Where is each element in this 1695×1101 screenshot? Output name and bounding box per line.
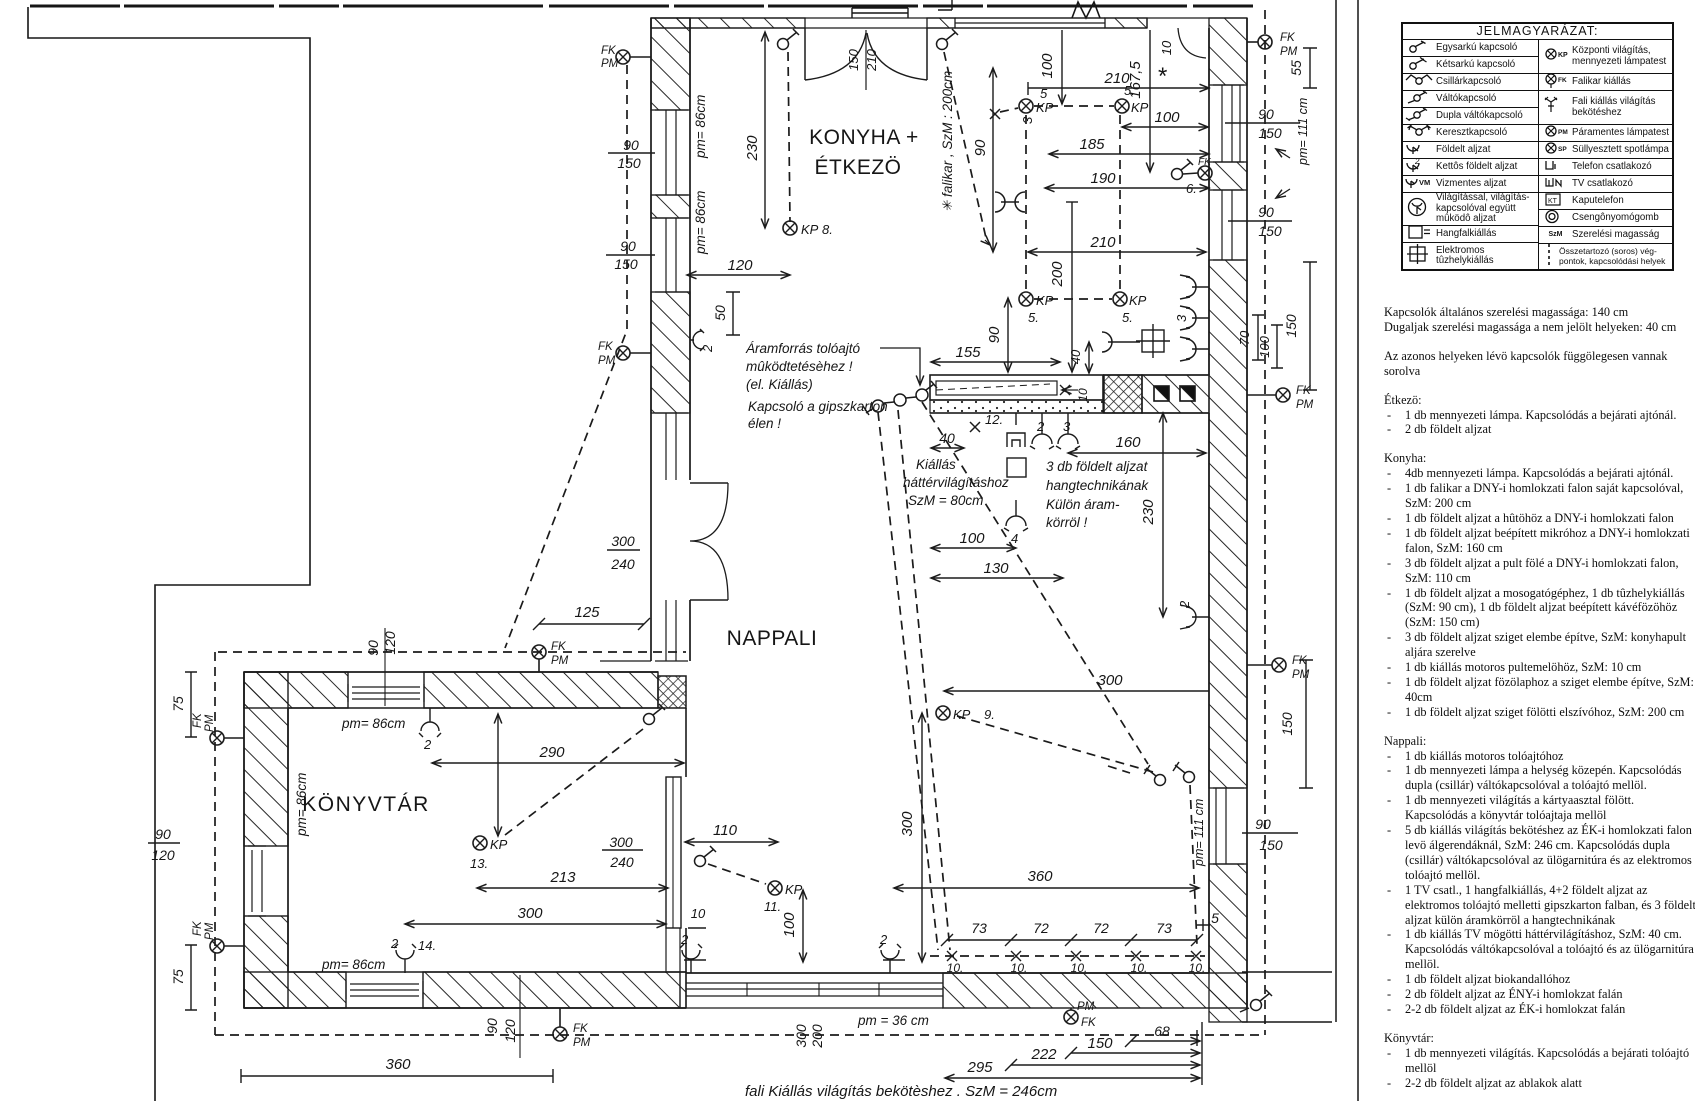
- svg-text:10: 10: [1159, 40, 1174, 55]
- svg-text:PM: PM: [598, 355, 616, 367]
- svg-text:90: 90: [1255, 816, 1271, 832]
- svg-text:10.: 10.: [1189, 961, 1206, 975]
- svg-text:2: 2: [700, 344, 715, 353]
- svg-text:pm= 86cm: pm= 86cm: [693, 191, 708, 255]
- svg-text:FK: FK: [601, 45, 617, 57]
- svg-text:2: 2: [680, 932, 689, 947]
- svg-text:150: 150: [617, 155, 641, 171]
- svg-text:120: 120: [151, 847, 175, 863]
- svg-text:90: 90: [484, 1018, 500, 1034]
- svg-text:90: 90: [986, 326, 1003, 343]
- svg-text:230: 230: [744, 135, 761, 162]
- svg-text:FK: FK: [1198, 157, 1212, 168]
- svg-text:150: 150: [1258, 223, 1282, 239]
- svg-text:360: 360: [1027, 868, 1053, 885]
- svg-text:FK: FK: [551, 641, 567, 653]
- svg-text:150: 150: [1259, 837, 1283, 853]
- svg-text:90: 90: [623, 137, 639, 153]
- svg-text:(el. Kiállás): (el. Kiállás): [746, 377, 813, 392]
- svg-text:háttérvilágításhoz: háttérvilágításhoz: [903, 475, 1009, 490]
- svg-text:100: 100: [1039, 53, 1056, 79]
- svg-text:KP: KP: [801, 222, 819, 237]
- svg-text:300: 300: [609, 834, 633, 850]
- svg-text:150: 150: [846, 48, 861, 70]
- svg-text:PM: PM: [1077, 1001, 1095, 1013]
- svg-text:körröl !: körröl !: [1046, 515, 1088, 530]
- svg-text:200: 200: [809, 1024, 825, 1049]
- svg-text:KONYHA +: KONYHA +: [809, 126, 919, 149]
- svg-text:ÉTKEZÖ: ÉTKEZÖ: [814, 156, 901, 179]
- svg-text:FK: FK: [573, 1023, 589, 1035]
- svg-text:40: 40: [939, 430, 955, 446]
- svg-text:150: 150: [1283, 314, 1299, 338]
- svg-text:11.: 11.: [764, 899, 781, 914]
- svg-text:90: 90: [620, 238, 636, 254]
- svg-text:pm= 86cm: pm= 86cm: [693, 95, 708, 159]
- svg-text:9.: 9.: [984, 707, 995, 722]
- svg-text:300: 300: [899, 811, 916, 837]
- svg-text:230: 230: [1140, 499, 1157, 526]
- svg-text:✳ falikar , SzM : 200cm: ✳ falikar , SzM : 200cm: [940, 71, 955, 212]
- svg-text:10.: 10.: [1011, 961, 1028, 975]
- svg-text:3 db földelt aljzat: 3 db földelt aljzat: [1046, 459, 1149, 474]
- svg-text:FK: FK: [192, 920, 204, 936]
- svg-text:10: 10: [1076, 388, 1090, 402]
- svg-text:KP: KP: [1129, 293, 1147, 308]
- svg-text:PM: PM: [1280, 46, 1298, 58]
- svg-text:100: 100: [1257, 335, 1272, 357]
- svg-text:100: 100: [959, 530, 985, 547]
- svg-text:pm= 86cm: pm= 86cm: [341, 716, 405, 731]
- svg-text:90: 90: [1258, 204, 1274, 220]
- svg-text:240: 240: [609, 854, 634, 870]
- svg-text:50: 50: [712, 305, 728, 321]
- svg-text:PM: PM: [601, 58, 619, 70]
- svg-text:mûködtetésèhez !: mûködtetésèhez !: [746, 359, 853, 374]
- svg-text:FK: FK: [1296, 385, 1312, 397]
- svg-text:5.: 5.: [1028, 310, 1039, 325]
- svg-text:KT: KT: [1548, 198, 1558, 205]
- svg-text:pm= 111 cm: pm= 111 cm: [1296, 98, 1310, 166]
- svg-text:PM: PM: [1296, 399, 1314, 411]
- svg-text:5: 5: [1211, 910, 1219, 926]
- svg-text:290: 290: [538, 744, 565, 761]
- svg-text:10.: 10.: [947, 961, 964, 975]
- svg-text:2: 2: [879, 932, 888, 947]
- svg-text:210: 210: [1089, 234, 1116, 251]
- svg-text:KP: KP: [1036, 100, 1054, 115]
- svg-text:2: 2: [1177, 600, 1192, 609]
- svg-text:100: 100: [781, 912, 798, 938]
- svg-text:2: 2: [1414, 159, 1420, 166]
- svg-text:2: 2: [423, 737, 432, 752]
- svg-text:68: 68: [1154, 1023, 1170, 1039]
- svg-text:72: 72: [1093, 920, 1109, 936]
- svg-text:200: 200: [1049, 261, 1066, 288]
- svg-text:210: 210: [864, 48, 879, 71]
- svg-text:185: 185: [1079, 136, 1105, 153]
- svg-text:FK: FK: [1292, 655, 1308, 667]
- svg-text:5.: 5.: [1124, 83, 1135, 98]
- svg-text:pm= 86cm: pm= 86cm: [321, 957, 385, 972]
- svg-text:SP: SP: [1558, 146, 1567, 153]
- svg-text:PM: PM: [1558, 129, 1568, 136]
- svg-text:110: 110: [713, 822, 738, 839]
- svg-text:120: 120: [382, 631, 398, 655]
- svg-text:360: 360: [385, 1056, 411, 1073]
- svg-text:PM: PM: [551, 655, 569, 667]
- svg-text:FK: FK: [1280, 32, 1296, 44]
- svg-text:Külön áram-: Külön áram-: [1046, 497, 1120, 512]
- svg-text:300: 300: [1097, 672, 1123, 689]
- svg-text:75: 75: [170, 696, 186, 712]
- svg-text:72: 72: [1033, 920, 1049, 936]
- svg-text:3: 3: [1020, 116, 1035, 124]
- svg-text:hangtechnikának: hangtechnikának: [1046, 478, 1149, 493]
- svg-text:PM: PM: [573, 1037, 591, 1049]
- svg-text:5: 5: [1040, 86, 1048, 101]
- svg-text:KP: KP: [490, 837, 508, 852]
- svg-text:Áramforrás tolóajtó: Áramforrás tolóajtó: [745, 341, 861, 356]
- svg-text:300: 300: [611, 533, 635, 549]
- svg-text:240: 240: [610, 556, 635, 572]
- svg-text:300: 300: [517, 905, 543, 922]
- svg-text:150: 150: [1087, 1035, 1113, 1052]
- svg-text:KP: KP: [1131, 100, 1149, 115]
- svg-text:10: 10: [691, 906, 706, 921]
- svg-text:2: 2: [390, 936, 399, 951]
- svg-text:pm= 111 cm: pm= 111 cm: [1192, 799, 1206, 867]
- svg-text:120: 120: [727, 257, 753, 274]
- svg-text:300: 300: [793, 1024, 809, 1048]
- svg-text:pm= 86cm: pm= 86cm: [294, 773, 309, 837]
- svg-text:FK: FK: [192, 712, 204, 728]
- svg-text:SzM = 80cm: SzM = 80cm: [908, 493, 983, 508]
- svg-text:6.: 6.: [1186, 181, 1197, 196]
- svg-text:130: 130: [983, 560, 1009, 577]
- svg-text:4: 4: [1011, 531, 1018, 546]
- svg-text:40: 40: [1068, 349, 1083, 364]
- svg-text:73: 73: [1156, 920, 1172, 936]
- svg-text:PM: PM: [204, 714, 216, 732]
- svg-text:PM: PM: [204, 922, 216, 940]
- svg-text:2: 2: [1036, 419, 1045, 434]
- svg-text:120: 120: [502, 1019, 518, 1043]
- svg-text:90: 90: [365, 640, 381, 656]
- svg-text:90: 90: [155, 826, 171, 842]
- svg-text:73: 73: [971, 920, 987, 936]
- svg-text:90: 90: [972, 139, 989, 156]
- svg-text:90: 90: [1258, 106, 1274, 122]
- svg-text:70: 70: [1237, 330, 1252, 345]
- svg-text:KP: KP: [1036, 293, 1054, 308]
- svg-text:Kapcsoló a gipszkarton: Kapcsoló a gipszkarton: [748, 399, 888, 414]
- svg-text:élen !: élen !: [748, 416, 781, 431]
- svg-text:75: 75: [170, 969, 186, 985]
- svg-text:155: 155: [955, 344, 981, 361]
- svg-text:pm = 36 cm: pm = 36 cm: [857, 1013, 929, 1028]
- svg-text:KÖNYVTÁR: KÖNYVTÁR: [302, 793, 430, 816]
- svg-text:Kiállás: Kiállás: [916, 457, 956, 472]
- svg-text:NAPPALI: NAPPALI: [727, 627, 818, 650]
- svg-text:FK: FK: [598, 341, 614, 353]
- svg-text:FK: FK: [1558, 77, 1567, 84]
- svg-text:222: 222: [1030, 1046, 1057, 1063]
- svg-text:VM: VM: [1419, 178, 1430, 187]
- svg-text:3: 3: [1063, 419, 1071, 434]
- svg-text:14.: 14.: [418, 938, 436, 953]
- svg-text:fali Kiállás világítás bekötès: fali Kiállás világítás bekötèshez . SzM …: [745, 1083, 1057, 1100]
- svg-text:55: 55: [1288, 60, 1304, 76]
- svg-text:3: 3: [1174, 314, 1189, 322]
- svg-text:100: 100: [1154, 109, 1180, 126]
- svg-text:PM: PM: [1292, 669, 1310, 681]
- svg-text:150: 150: [1279, 712, 1295, 736]
- svg-text:125: 125: [574, 604, 600, 621]
- svg-text:190: 190: [1090, 170, 1116, 187]
- svg-text:150: 150: [614, 256, 638, 272]
- svg-text:FK: FK: [1081, 1017, 1097, 1029]
- svg-text:10.: 10.: [1131, 961, 1148, 975]
- svg-text:KP: KP: [785, 882, 803, 897]
- svg-text:160: 160: [1115, 434, 1141, 451]
- svg-text:8.: 8.: [822, 222, 833, 237]
- svg-text:12.: 12.: [985, 412, 1003, 427]
- svg-text:295: 295: [966, 1059, 993, 1076]
- svg-text:213: 213: [549, 869, 576, 886]
- svg-text:150: 150: [1258, 125, 1282, 141]
- svg-text:KP: KP: [1558, 52, 1568, 59]
- svg-text:5.: 5.: [1122, 310, 1133, 325]
- svg-text:13.: 13.: [470, 856, 488, 871]
- svg-text:10.: 10.: [1071, 961, 1088, 975]
- svg-text:KP: KP: [953, 707, 971, 722]
- svg-text:*: *: [1158, 63, 1167, 90]
